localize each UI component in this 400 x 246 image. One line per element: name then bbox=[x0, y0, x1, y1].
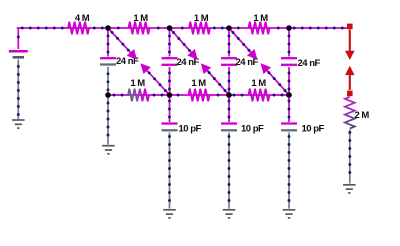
ground below C6 bbox=[223, 210, 236, 218]
wire C3 to row2 bbox=[228, 67, 231, 95]
resistor R8 2 M bbox=[345, 97, 355, 129]
capacitor C5 10 pF bbox=[162, 124, 178, 131]
probe arrow up bbox=[345, 66, 355, 90]
wire C2 to row2 bbox=[168, 67, 171, 95]
wire C6 to ground bbox=[228, 133, 231, 209]
wire C4 to row2 bbox=[288, 67, 291, 95]
wire R8 to ground bbox=[348, 130, 351, 184]
probe arrow down bbox=[345, 30, 355, 61]
wire C1 to row2 bbox=[107, 67, 110, 95]
wire row2 node A to ground bbox=[107, 95, 110, 145]
wire arrow stage 1 down-right bbox=[108, 28, 137, 60]
wire arrow stage 1 up-left bbox=[140, 63, 169, 95]
ground below C5 bbox=[163, 210, 176, 218]
wire source to ground bbox=[17, 60, 20, 120]
wire arrow stage 2 down-right bbox=[170, 28, 198, 60]
svg-text:10 pF: 10 pF bbox=[179, 124, 202, 135]
svg-text:24 nF: 24 nF bbox=[298, 58, 321, 69]
wire C5 to ground bbox=[168, 133, 171, 209]
ground below C7 bbox=[283, 210, 296, 218]
junction node C mid bbox=[226, 92, 232, 98]
svg-text:2 M: 2 M bbox=[355, 110, 370, 121]
wire arrow stage 3 up-left bbox=[261, 63, 289, 95]
wire node A to C1 bbox=[107, 28, 110, 57]
resistor R3 1 M bbox=[189, 22, 210, 35]
svg-text:10 pF: 10 pF bbox=[302, 124, 325, 135]
junction node B mid bbox=[167, 92, 173, 98]
wire row2 to C5 bbox=[168, 95, 171, 122]
svg-text:1 M: 1 M bbox=[130, 78, 145, 89]
resistor R2 1 M bbox=[129, 22, 150, 35]
wire arrow stage 3 down-right bbox=[229, 28, 257, 60]
capacitor C4 24 nF bbox=[281, 58, 297, 65]
wire row2 to C7 bbox=[288, 95, 291, 122]
probe square P2 bbox=[347, 91, 353, 97]
resistor R4 1 M bbox=[249, 22, 270, 35]
junction node A mid bbox=[105, 92, 111, 98]
wire C7 to ground bbox=[288, 133, 291, 209]
capacitor C2 24 nF bbox=[162, 58, 178, 65]
wire node C3 upper bbox=[228, 28, 231, 57]
svg-text:4 M: 4 M bbox=[75, 13, 90, 24]
resistor R6 1 M bbox=[189, 89, 210, 102]
svg-text:1 M: 1 M bbox=[251, 78, 266, 89]
junction node B top bbox=[167, 25, 173, 31]
wire node C4 upper bbox=[288, 28, 291, 57]
wire row2 middle rail bbox=[108, 94, 289, 97]
capacitor C6 10 pF bbox=[221, 124, 237, 131]
resistor R1 4 M bbox=[68, 22, 89, 35]
ground node A bbox=[102, 146, 115, 154]
probe square P1 bbox=[347, 24, 353, 30]
wire source top bbox=[17, 28, 20, 49]
resistor R7 1 M bbox=[249, 89, 270, 102]
capacitor C1 24 nF bbox=[100, 58, 116, 64]
resistor R5 1 M bbox=[128, 89, 149, 102]
svg-text:10 pF: 10 pF bbox=[241, 124, 264, 135]
wire row1 top rail bbox=[17, 27, 347, 30]
battery V1 bbox=[9, 51, 28, 57]
junction node D mid bbox=[286, 92, 292, 98]
svg-text:1 M: 1 M bbox=[191, 78, 206, 89]
ground load bbox=[343, 185, 356, 193]
wire node C2 upper bbox=[168, 28, 171, 57]
wire row2 to C6 bbox=[228, 95, 231, 122]
capacitor C7 10 pF bbox=[281, 124, 297, 131]
svg-text:1 M: 1 M bbox=[133, 13, 148, 24]
svg-text:1 M: 1 M bbox=[253, 13, 268, 24]
ground source bbox=[12, 120, 25, 128]
junction node C top bbox=[226, 25, 232, 31]
wire arrow stage 2 up-left bbox=[201, 63, 229, 95]
capacitor C3 24 nF bbox=[221, 58, 237, 65]
junction node D top bbox=[286, 25, 292, 31]
junction node A top bbox=[105, 25, 111, 31]
svg-text:1 M: 1 M bbox=[194, 13, 209, 24]
